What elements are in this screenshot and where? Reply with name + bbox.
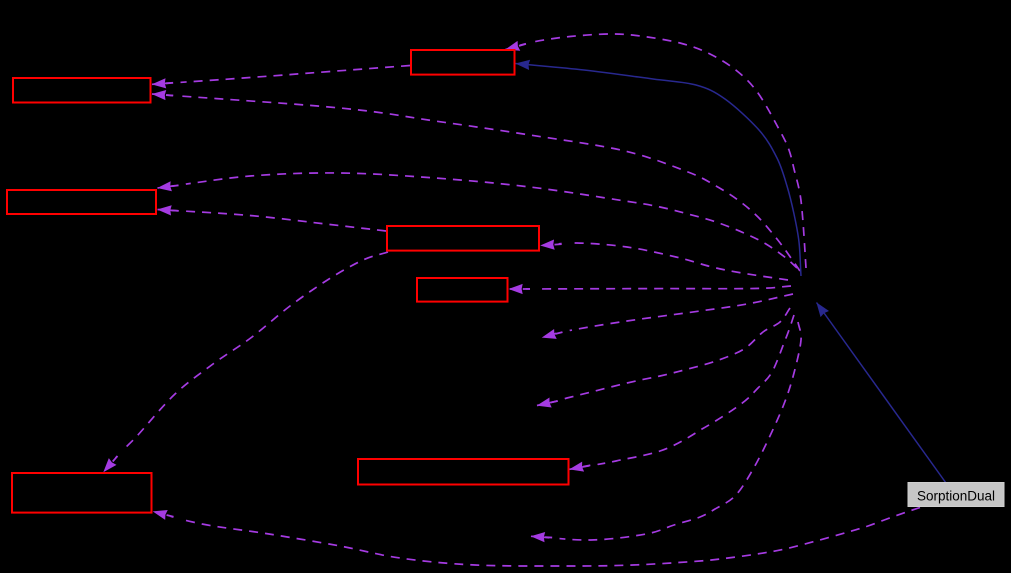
node D box xyxy=(387,226,539,251)
wire node A to node B upper xyxy=(152,66,410,85)
node A box xyxy=(411,50,515,75)
node C box xyxy=(7,190,156,214)
wire hub to node E xyxy=(509,286,791,289)
wire SorptionDual to node G right xyxy=(153,508,920,567)
node SorptionDual box xyxy=(908,483,1004,507)
wire blue SorptionDual to hub xyxy=(817,303,947,484)
svg-text:SorptionDual: SorptionDual xyxy=(917,488,995,503)
wire hub to node free1 xyxy=(542,294,793,338)
node B box xyxy=(13,78,151,103)
node G box xyxy=(12,473,152,513)
wire hub to node F xyxy=(570,315,795,469)
node F box xyxy=(358,459,569,485)
wire hub to node D xyxy=(541,243,789,280)
wire hub to node B lower xyxy=(152,94,800,271)
wire hub to node C upper xyxy=(158,173,798,268)
wire node D to node G top xyxy=(104,252,389,472)
node E box xyxy=(417,278,508,302)
wire hub to node free3 xyxy=(531,322,801,540)
wire node D to node C lower xyxy=(158,210,387,232)
wire hub to node A arc over top xyxy=(506,34,807,268)
wire blue hub to node A xyxy=(516,64,802,277)
wire hub to node free2 xyxy=(537,308,790,406)
